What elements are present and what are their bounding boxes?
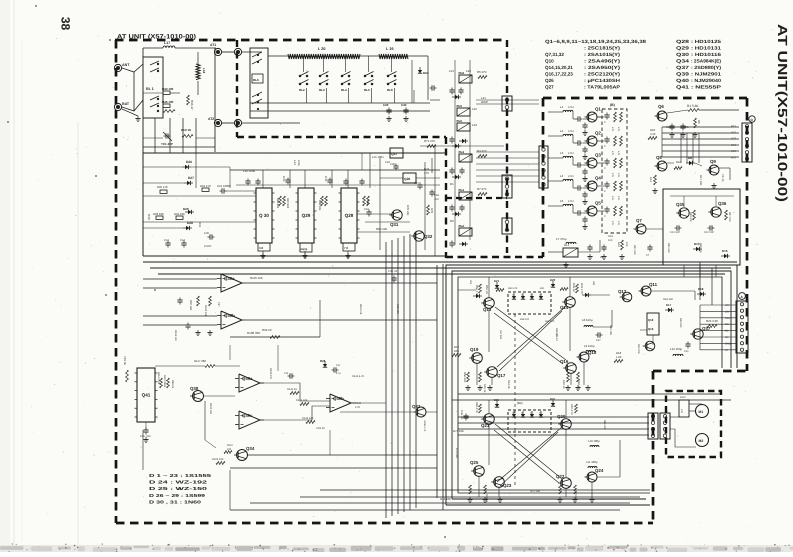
svg-text:D10: D10: [694, 242, 700, 246]
svg-text:Q5: Q5: [595, 201, 601, 206]
svg-text:Q30: Q30: [676, 52, 690, 57]
svg-text:R51 10: R51 10: [485, 285, 488, 294]
svg-text:R115 10K: R115 10K: [250, 276, 263, 280]
svg-text:Q8: Q8: [656, 155, 662, 160]
svg-text:C40: C40: [684, 350, 689, 353]
svg-text:Q22: Q22: [556, 474, 565, 479]
svg-text:R30 10K: R30 10K: [667, 243, 670, 253]
svg-text:Q7,31,32: Q7,31,32: [545, 52, 564, 57]
svg-text:L17: L17: [164, 41, 170, 45]
svg-text:: 2SC1815(Y): : 2SC1815(Y): [584, 46, 621, 51]
svg-text:47K: 47K: [611, 196, 614, 201]
svg-text:D18: D18: [698, 287, 704, 291]
svg-text:L5: L5: [560, 199, 564, 203]
svg-text:AT2: AT2: [208, 117, 214, 121]
svg-text:Q26: Q26: [404, 177, 410, 181]
svg-text:470J: 470J: [568, 175, 574, 178]
svg-text:Q1~6,8,9,11~13,18,19,24,25,33,: Q1~6,8,9,11~13,18,19,24,25,33,36,38: [545, 39, 647, 44]
svg-text:R108 4.7K: R108 4.7K: [423, 420, 426, 432]
svg-text:R50 47K: R50 47K: [508, 287, 518, 290]
svg-text:AT5: AT5: [731, 149, 736, 153]
svg-text:: µPC1430SH: : µPC1430SH: [584, 78, 621, 83]
svg-text:AT4: AT4: [731, 143, 736, 147]
svg-text:28V: 28V: [725, 304, 730, 307]
svg-text:RL5: RL5: [457, 104, 463, 108]
svg-text:470J: 470J: [568, 130, 574, 133]
svg-text:Q38: Q38: [190, 386, 199, 391]
svg-text:R10: R10: [650, 128, 656, 132]
svg-text:D 26 ~ 29 : 1S599: D 26 ~ 29 : 1S599: [149, 493, 206, 498]
svg-text:AT UNIT(X57-1010-00): AT UNIT(X57-1010-00): [775, 24, 790, 202]
svg-text:D25: D25: [320, 359, 326, 363]
svg-text:RL8: RL8: [459, 71, 465, 75]
svg-text:C: C: [604, 190, 606, 193]
svg-text:AT: AT: [725, 349, 729, 352]
svg-text:Q20: Q20: [557, 414, 566, 419]
svg-text:R14: R14: [649, 177, 652, 182]
svg-text:L23: L23: [472, 123, 477, 127]
svg-text:(B2): (B2): [517, 401, 522, 405]
svg-text:R16: R16: [676, 161, 681, 164]
svg-text:L10 100µ: L10 100µ: [588, 439, 600, 443]
svg-text:R88 820: R88 820: [276, 198, 279, 209]
svg-text:47K: 47K: [617, 127, 620, 132]
svg-text:C: C: [604, 215, 606, 218]
svg-text:C45 .033: C45 .033: [140, 435, 151, 438]
svg-text:28V: 28V: [725, 310, 730, 313]
svg-text:RL4: RL4: [459, 150, 465, 154]
svg-text:C37: C37: [217, 302, 220, 307]
svg-text:R55 12: R55 12: [483, 384, 486, 393]
svg-text:L18: L18: [202, 68, 206, 74]
svg-text:R109 10K: R109 10K: [212, 458, 224, 461]
svg-text:C41: C41: [336, 364, 341, 367]
svg-text:Q34: Q34: [246, 446, 255, 451]
svg-text:R80 10K: R80 10K: [376, 227, 387, 231]
svg-text:L16 100u: L16 100u: [243, 169, 255, 173]
svg-text:7 8: 7 8: [344, 246, 348, 250]
svg-text:470J: 470J: [568, 106, 574, 109]
svg-text:Q40a: Q40a: [242, 376, 253, 381]
svg-text:Q18: Q18: [648, 318, 654, 322]
svg-text:R45 100: R45 100: [162, 100, 174, 104]
svg-text:Q40b: Q40b: [333, 396, 344, 401]
svg-text:47K: 47K: [617, 221, 620, 226]
svg-text:150: 150: [625, 242, 628, 247]
svg-text:Q16: Q16: [560, 359, 569, 364]
svg-text:R60 4.7K: R60 4.7K: [570, 404, 573, 415]
svg-text:D 25 : WZ-150: D 25 : WZ-150: [149, 486, 208, 491]
svg-text:Q31: Q31: [390, 222, 399, 227]
svg-text:D27: D27: [188, 176, 194, 180]
svg-text:Q10: Q10: [545, 59, 554, 64]
svg-text:3.3K: 3.3K: [650, 133, 656, 136]
svg-text:Q28: Q28: [345, 213, 354, 218]
svg-text:R73 10K: R73 10K: [453, 429, 464, 433]
svg-text:R7 270: R7 270: [477, 187, 487, 191]
svg-text:R87 820: R87 820: [286, 198, 289, 209]
svg-text:D28: D28: [187, 221, 193, 225]
svg-text:R68 4.7K: R68 4.7K: [475, 402, 478, 413]
svg-text:: 2SD880(Y): : 2SD880(Y): [691, 65, 722, 70]
svg-text:R46 47: R46 47: [190, 100, 194, 110]
svg-text:Q33: Q33: [412, 404, 421, 409]
svg-text:C13: C13: [164, 239, 169, 242]
svg-text:SG: SG: [725, 323, 729, 326]
svg-text:Q3: Q3: [595, 153, 601, 158]
svg-text:RL6: RL6: [387, 88, 393, 92]
svg-text:L11 100µ: L11 100µ: [586, 460, 598, 464]
svg-text:R79 22K: R79 22K: [455, 448, 458, 458]
svg-text:R106 33K: R106 33K: [247, 331, 260, 335]
svg-text:R120 1K: R120 1K: [287, 388, 297, 391]
svg-text:D22: D22: [550, 398, 555, 401]
svg-text:D26: D26: [186, 160, 192, 164]
svg-text:D5: D5: [450, 219, 454, 223]
svg-text:C30: C30: [401, 103, 407, 107]
svg-text:47K: 47K: [617, 151, 620, 156]
svg-text:R23: R23: [608, 235, 613, 238]
svg-text:1.8K: 1.8K: [616, 356, 622, 359]
svg-text:Q35: Q35: [676, 202, 685, 207]
svg-text:R98 1K: R98 1K: [171, 380, 174, 389]
svg-text:: HD10131: : HD10131: [691, 46, 722, 51]
svg-text:: 2SA984K(E): : 2SA984K(E): [691, 59, 721, 64]
svg-text:M1: M1: [699, 410, 704, 414]
svg-text:R18: R18: [616, 351, 622, 355]
svg-text:D29: D29: [183, 207, 189, 211]
svg-text:R49 10: R49 10: [572, 283, 575, 292]
svg-text:R43 4.7K: R43 4.7K: [580, 283, 583, 294]
svg-text:(25(2)): (25(2)): [300, 248, 307, 251]
svg-text:R47 820: R47 820: [499, 330, 502, 340]
svg-text:L 20: L 20: [318, 47, 326, 51]
svg-text:R1 5.6K: R1 5.6K: [687, 104, 699, 108]
svg-text:RL1: RL1: [564, 243, 570, 247]
svg-text:RL5: RL5: [364, 88, 370, 92]
svg-text:L1: L1: [560, 105, 564, 109]
svg-text:D 1 ~ 23 : 1S1555: D 1 ~ 23 : 1S1555: [149, 473, 212, 478]
svg-text:: 2SA1015(Y): : 2SA1015(Y): [584, 52, 621, 57]
svg-text:R19 47K: R19 47K: [637, 344, 640, 354]
svg-text:Q32: Q32: [424, 234, 433, 239]
svg-text:AT6: AT6: [731, 156, 736, 160]
svg-text:R50 10: R50 10: [562, 380, 565, 389]
svg-text:L15 100u: L15 100u: [372, 155, 384, 159]
svg-text:C14: C14: [180, 239, 185, 242]
svg-text:R99 1K: R99 1K: [262, 328, 272, 332]
svg-text:: HD10125: : HD10125: [691, 39, 722, 44]
svg-text:4.7K: 4.7K: [355, 406, 360, 409]
svg-text:R81 47K: R81 47K: [603, 420, 606, 430]
svg-text:: NJM29040: : NJM29040: [691, 78, 722, 83]
svg-text:Q17: Q17: [497, 373, 506, 378]
svg-text:R53: R53: [469, 280, 472, 285]
svg-text:D30: D30: [147, 214, 151, 220]
svg-text:L22: L22: [472, 107, 477, 111]
svg-text:470J: 470J: [568, 152, 574, 155]
svg-text:38: 38: [59, 17, 73, 31]
svg-text:RL3: RL3: [459, 188, 465, 192]
svg-text:Q6: Q6: [658, 104, 664, 109]
svg-text:Q16,17,22,23: Q16,17,22,23: [545, 72, 573, 77]
svg-text:C44 10P: C44 10P: [670, 231, 680, 234]
svg-text:C: C: [604, 145, 606, 148]
svg-text:R74 10K: R74 10K: [440, 497, 451, 501]
svg-text:Q19: Q19: [470, 347, 479, 352]
svg-text:100u: 100u: [297, 160, 300, 166]
svg-text:3 8: 3 8: [259, 246, 263, 250]
svg-text:R78 10K: R78 10K: [406, 205, 409, 216]
svg-text:R114 270K: R114 270K: [157, 372, 160, 385]
svg-text:Q9: Q9: [710, 159, 716, 164]
svg-text:D21: D21: [494, 279, 500, 283]
svg-text:R40 10K: R40 10K: [609, 325, 612, 335]
svg-text:Q27: Q27: [545, 85, 554, 90]
svg-text:: 2SC2120(Y): : 2SC2120(Y): [584, 72, 621, 77]
svg-text:Q39a: Q39a: [224, 276, 235, 281]
svg-text:R79: R79: [430, 208, 433, 213]
svg-text:L8 100µ: L8 100µ: [582, 318, 593, 322]
svg-text:ANT: ANT: [122, 63, 130, 67]
svg-text:: NJM2901: : NJM2901: [691, 72, 722, 77]
svg-text:L4: L4: [560, 174, 564, 178]
svg-text:R43 100: R43 100: [162, 87, 174, 91]
svg-text:D17: D17: [666, 303, 672, 307]
svg-text:R122 10K: R122 10K: [209, 403, 212, 414]
svg-text:R104 100: R104 100: [174, 330, 177, 341]
svg-text:D31: D31: [198, 222, 202, 228]
svg-text:Q40: Q40: [676, 78, 690, 83]
svg-text:D 30 , 31 : 1N60: D 30 , 31 : 1N60: [149, 499, 202, 504]
svg-text:R122 4.7K: R122 4.7K: [352, 375, 365, 378]
svg-text:R126: R126: [355, 402, 362, 405]
svg-text:R94 10K: R94 10K: [174, 212, 185, 216]
svg-text:Q1: Q1: [595, 107, 601, 112]
svg-text:R26 3.3K: R26 3.3K: [706, 319, 718, 323]
svg-text:Q29: Q29: [676, 46, 690, 51]
svg-text:L 19: L 19: [386, 47, 394, 51]
svg-text:R98 10K: R98 10K: [396, 304, 399, 314]
svg-text:M1: M1: [725, 330, 729, 333]
svg-text:C: C: [604, 121, 606, 124]
svg-text:R100 10K: R100 10K: [204, 305, 207, 317]
svg-text:Q27: Q27: [391, 152, 397, 156]
svg-text:D20: D20: [550, 278, 556, 282]
svg-text:R54 1K: R54 1K: [507, 380, 510, 389]
svg-text:Q23: Q23: [503, 483, 512, 488]
svg-text:D1: D1: [450, 182, 454, 186]
svg-text:L3: L3: [560, 151, 564, 155]
svg-text:R24 150: R24 150: [679, 318, 682, 328]
svg-text:Q4: Q4: [595, 176, 601, 181]
svg-text:R5 270: R5 270: [477, 70, 487, 74]
svg-text:RL4: RL4: [341, 88, 347, 92]
svg-text:AT2: AT2: [731, 130, 736, 134]
svg-text:Q39b: Q39b: [224, 313, 235, 318]
svg-text:Q39c: Q39c: [242, 413, 253, 418]
svg-text:Q11: Q11: [649, 282, 658, 287]
svg-text:C37: C37: [596, 339, 601, 342]
svg-text:R110: R110: [227, 444, 233, 447]
svg-text:200P: 200P: [481, 100, 488, 104]
svg-text:C26: C26: [204, 232, 209, 235]
svg-text:R132: R132: [680, 396, 686, 399]
svg-text:C3: C3: [666, 126, 670, 129]
svg-text:(B): (B): [610, 103, 615, 107]
svg-text:Q41: Q41: [676, 85, 690, 90]
svg-text:R46 27: R46 27: [555, 328, 558, 337]
svg-text:R27 47K: R27 47K: [728, 212, 731, 222]
svg-text:R113 390K: R113 390K: [163, 375, 166, 388]
svg-text:RL6: RL6: [253, 78, 259, 82]
svg-text:: TA79L005AP: : TA79L005AP: [584, 85, 620, 90]
svg-text:M2: M2: [725, 336, 729, 339]
svg-text:R41: R41: [540, 287, 545, 290]
svg-text:Q2: Q2: [595, 131, 601, 136]
svg-text:47K: 47K: [611, 173, 614, 178]
svg-text:R39: R39: [725, 317, 730, 320]
svg-text:Q24: Q24: [595, 468, 604, 473]
svg-text:R3 270: R3 270: [477, 149, 487, 153]
svg-text:R42: R42: [592, 281, 595, 286]
svg-text:D15: D15: [722, 249, 728, 253]
svg-text:: 2SA950(Y): : 2SA950(Y): [584, 65, 621, 70]
svg-text:47K: 47K: [611, 127, 614, 132]
svg-text:Q13: Q13: [483, 307, 492, 312]
svg-text:Q26: Q26: [545, 78, 554, 83]
svg-text:: HD10116: : HD10116: [691, 52, 722, 57]
svg-text:M2: M2: [699, 439, 704, 443]
svg-text:Q19: Q19: [648, 327, 654, 331]
svg-text:Q 30: Q 30: [259, 213, 269, 218]
svg-text:R21 10K: R21 10K: [633, 245, 636, 255]
svg-text:C: C: [604, 167, 606, 170]
svg-text:C5: C5: [685, 126, 689, 129]
svg-text:C33: C33: [324, 176, 328, 182]
svg-text:4.7µ: 4.7µ: [336, 372, 341, 375]
svg-text:D8: D8: [688, 156, 692, 160]
svg-text:GND: GND: [725, 342, 731, 345]
svg-text:C40: C40: [284, 372, 289, 375]
svg-text:470J: 470J: [568, 200, 574, 203]
svg-text:TC1 40P: TC1 40P: [161, 142, 173, 146]
svg-text:R17 10K: R17 10K: [699, 175, 702, 186]
svg-text:R97 10K: R97 10K: [189, 300, 192, 311]
svg-text:R54 2.2K: R54 2.2K: [359, 304, 362, 315]
svg-text:C29: C29: [390, 163, 395, 166]
svg-text:C46 .01: C46 .01: [460, 410, 463, 420]
svg-text:C16: C16: [364, 208, 369, 211]
svg-text:AT UNIT (X57-1010-00): AT UNIT (X57-1010-00): [117, 34, 196, 41]
svg-text:Q39: Q39: [676, 72, 690, 77]
svg-text:R85 10K: R85 10K: [318, 200, 321, 211]
svg-text:Q28: Q28: [676, 39, 690, 44]
svg-text:Q12: Q12: [618, 289, 627, 294]
svg-text:47K: 47K: [611, 151, 614, 156]
svg-text:R71 270: R71 270: [424, 139, 435, 143]
svg-text:L12 150µ: L12 150µ: [670, 347, 682, 351]
svg-text:Q21: Q21: [481, 423, 490, 428]
svg-text:AT1: AT1: [210, 43, 216, 47]
svg-text:1000P: 1000P: [204, 245, 212, 248]
svg-text:RL2: RL2: [459, 224, 465, 228]
svg-text:AT3: AT3: [731, 137, 736, 141]
svg-text:C9 .01: C9 .01: [721, 174, 724, 182]
svg-text:L14: L14: [293, 160, 297, 165]
svg-text:Q14,15,20,21: Q14,15,20,21: [545, 65, 573, 70]
svg-text:RL2: RL2: [299, 88, 305, 92]
svg-text:R95 470: R95 470: [157, 185, 168, 189]
svg-text:: 2SA496(Y): : 2SA496(Y): [584, 59, 621, 64]
svg-text:R86: R86: [366, 200, 369, 205]
svg-text:Q25: Q25: [470, 460, 479, 465]
svg-text:470: 470: [680, 409, 683, 414]
svg-text:C21 1000P: C21 1000P: [217, 184, 231, 188]
svg-text:47K: 47K: [617, 196, 620, 201]
svg-text:R48 100: R48 100: [520, 318, 530, 321]
svg-text:R93 10K: R93 10K: [153, 212, 164, 216]
svg-text:Q7: Q7: [636, 218, 642, 223]
svg-text:Q29: Q29: [302, 213, 311, 218]
svg-text:R117 680: R117 680: [194, 359, 206, 363]
svg-text:L2: L2: [560, 129, 564, 133]
svg-text:RL3: RL3: [319, 88, 325, 92]
svg-text:Q41: Q41: [142, 393, 151, 398]
svg-text:47K: 47K: [617, 173, 620, 178]
svg-text:47K: 47K: [611, 221, 614, 226]
svg-text:AT1: AT1: [731, 124, 736, 128]
svg-text:R72 10K: R72 10K: [530, 490, 540, 493]
svg-text:D23: D23: [494, 399, 499, 402]
svg-text:Q34: Q34: [676, 59, 690, 64]
svg-text:C38 .01: C38 .01: [388, 270, 398, 273]
svg-text:R9: R9: [697, 120, 700, 124]
svg-text:R22: R22: [617, 242, 620, 247]
svg-text:C20: C20: [383, 103, 389, 107]
svg-text:Q37: Q37: [702, 326, 711, 331]
svg-text:10K: 10K: [454, 349, 459, 353]
svg-text:R56 22K: R56 22K: [463, 372, 466, 383]
svg-text:R123 27K: R123 27K: [269, 368, 272, 379]
svg-text:C17: C17: [414, 182, 419, 185]
svg-text:L7 470µ: L7 470µ: [556, 237, 567, 241]
svg-text:: NE555P: : NE555P: [691, 85, 721, 90]
svg-text:R29 47K: R29 47K: [689, 212, 692, 222]
svg-text:C42 10P: C42 10P: [704, 231, 714, 234]
svg-text:VR2 5K: VR2 5K: [316, 427, 325, 430]
svg-text:VR1 5K: VR1 5K: [123, 356, 126, 365]
svg-text:R129 33K: R129 33K: [302, 417, 314, 420]
svg-text:Q36: Q36: [718, 201, 727, 206]
svg-text:Q37: Q37: [676, 65, 690, 70]
svg-text:RL 1: RL 1: [146, 87, 154, 91]
svg-text:L9 100µ: L9 100µ: [584, 344, 595, 348]
svg-text:R34 15K: R34 15K: [663, 298, 673, 301]
svg-text:C23: C23: [282, 176, 286, 182]
svg-text:RAT: RAT: [122, 102, 130, 106]
svg-text:L20: L20: [466, 69, 471, 73]
svg-text:L24: L24: [449, 69, 454, 73]
svg-text:150: 150: [608, 239, 613, 242]
svg-text:RL6: RL6: [457, 119, 463, 123]
svg-text:R121 10K: R121 10K: [296, 399, 308, 402]
svg-text:D 24 : WZ-192: D 24 : WZ-192: [149, 480, 208, 485]
svg-text:R91 470: R91 470: [200, 184, 211, 188]
